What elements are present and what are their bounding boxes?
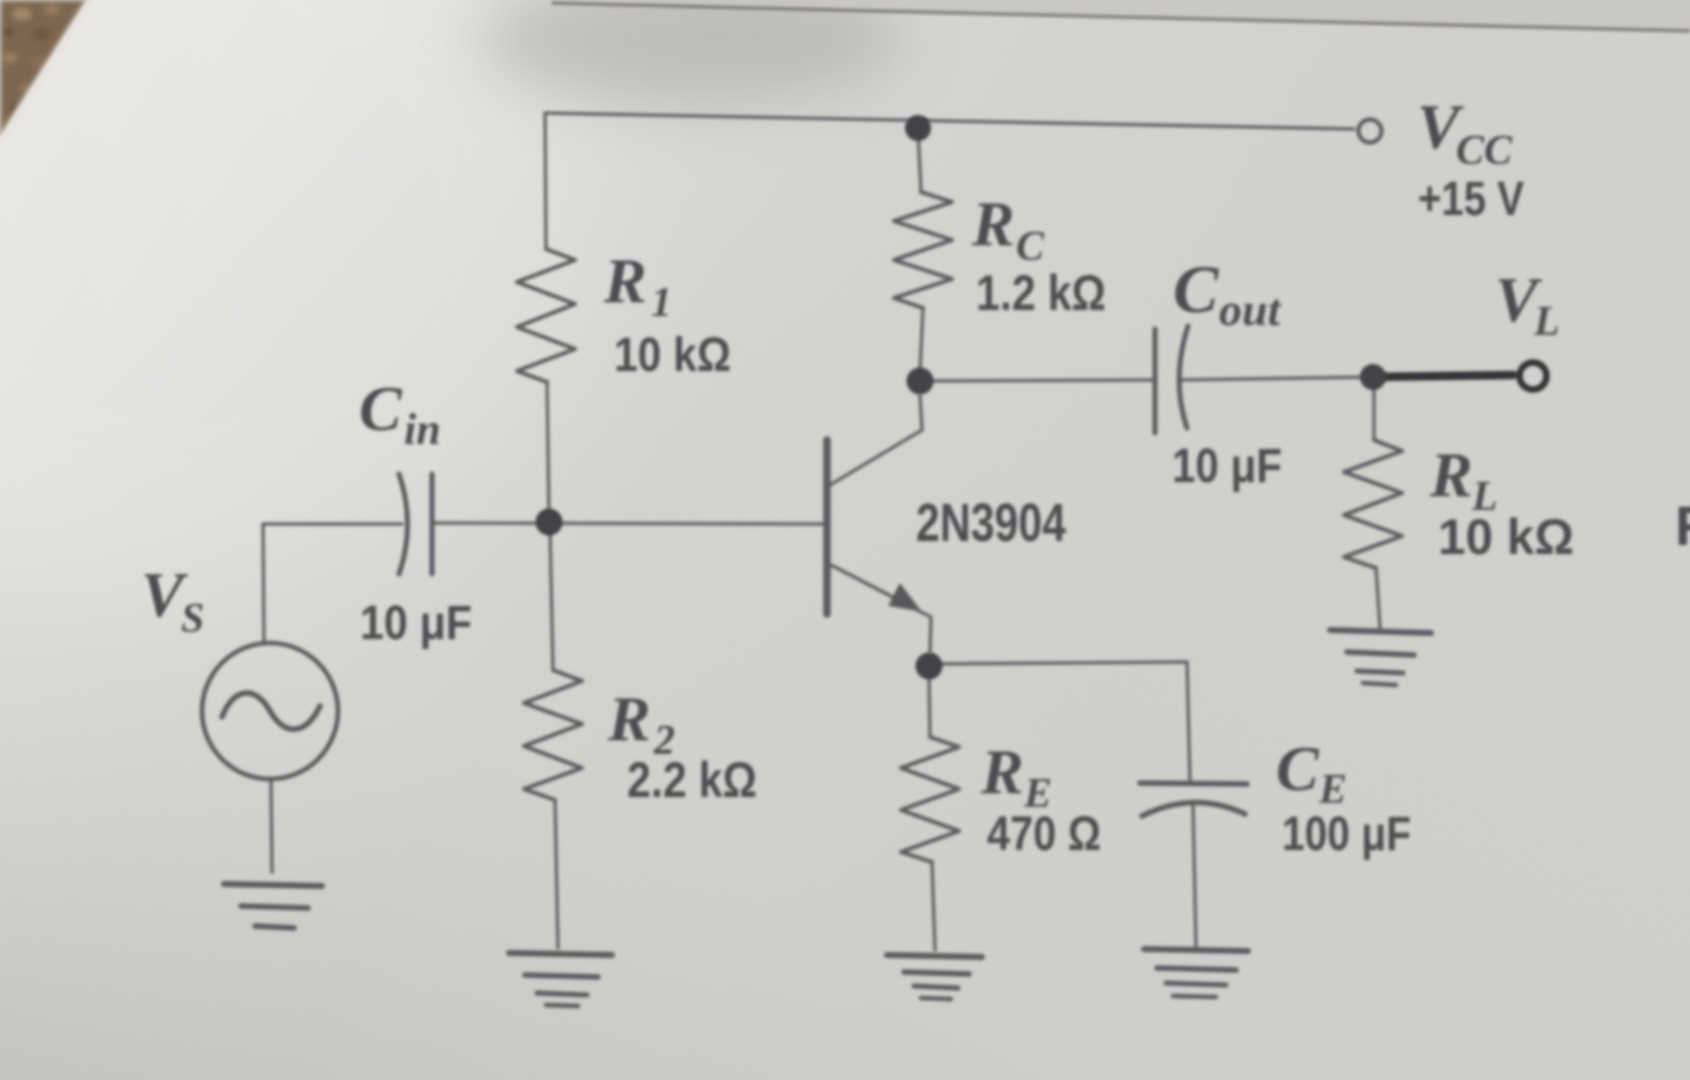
wire Vs vertical	[263, 524, 264, 643]
wire emitter bypass rail	[929, 662, 1190, 782]
source Vs	[202, 643, 338, 779]
transistor Q1 2N3904	[823, 440, 831, 614]
bright reflection band near top-left corner	[0, 0, 600, 580]
node rail junction	[905, 115, 931, 141]
wire VL thick	[1373, 375, 1513, 377]
wire top rail	[545, 113, 1354, 129]
terminal VL	[1520, 363, 1547, 390]
node emitter	[916, 653, 943, 680]
node base	[536, 509, 563, 536]
bright paper edge along corner	[0, 0, 90, 142]
terminal Vcc	[1359, 120, 1382, 143]
resistor RC	[894, 192, 952, 308]
wire base rail	[263, 523, 826, 524]
top page-edge strip	[552, 0, 1690, 31]
resistor R1	[517, 249, 575, 382]
ground (RE)	[887, 955, 982, 957]
resistor RL	[1344, 440, 1402, 568]
ground (CE)	[1144, 949, 1248, 951]
resistor R2	[524, 670, 582, 800]
wire RL drop	[1372, 386, 1375, 440]
resistor RE	[901, 737, 959, 862]
ground (Vs)	[224, 884, 322, 886]
wire left drop to R1	[545, 113, 546, 249]
node collector	[907, 368, 934, 395]
soft shadow under top edge	[480, 0, 900, 106]
wire RC to collector node	[920, 308, 923, 370]
wire R2 to ground	[555, 800, 558, 948]
wire R1 to base node	[547, 382, 549, 515]
wire collector out	[920, 380, 1153, 381]
wire RE to ground	[932, 862, 935, 950]
capacitor Cin	[399, 474, 408, 574]
wire CE to ground	[1193, 806, 1196, 947]
node VL	[1360, 364, 1386, 390]
capacitor Cout	[1153, 329, 1158, 433]
wire RL to ground	[1376, 568, 1380, 628]
ground (R2)	[509, 953, 612, 955]
capacitor CE	[1140, 783, 1247, 784]
wire RC drop from rail	[918, 130, 921, 192]
ground (RL)	[1330, 630, 1431, 633]
top page edge line	[552, 3, 1690, 31]
wire emitter drop to RE	[929, 678, 930, 737]
wire R2 drop	[550, 530, 553, 670]
carpet corner top-left	[0, 0, 90, 142]
wire Cout to VL node	[1178, 377, 1371, 380]
wire Vs to ground	[271, 779, 272, 872]
